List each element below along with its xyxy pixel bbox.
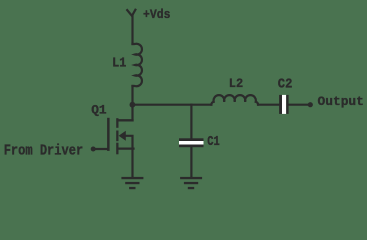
transistor Q1 body lead and source vertical [125, 136, 133, 177]
svg-text:Q1: Q1 [91, 102, 107, 117]
wire L2 to C2 [258, 104, 279, 106]
wire C1 branch upper [190, 105, 192, 139]
capacitor C2 right plate [286, 95, 288, 114]
svg-text:Output: Output [318, 94, 364, 109]
inductor L1 [133, 44, 142, 86]
capacitor C2 left plate [279, 95, 282, 114]
svg-text:C2: C2 [278, 78, 293, 93]
svg-text:+Vds: +Vds [143, 7, 171, 22]
capacitor C1 bottom plate [179, 145, 204, 148]
transistor Q1 channel dash bottom [116, 143, 118, 155]
gate terminal dot [91, 147, 96, 152]
junction node dot [130, 102, 136, 108]
wire drain vertical [119, 86, 133, 120]
wire C2 to output [289, 104, 310, 106]
svg-text:L2: L2 [229, 76, 244, 91]
capacitor C1 top plate [179, 138, 204, 141]
svg-text:L1: L1 [112, 56, 126, 71]
ground under Q1 source [121, 177, 143, 189]
capacitor C2 white gap [282, 95, 286, 114]
wire main net horizontal [133, 104, 212, 106]
transistor Q1 drain lead [119, 119, 133, 121]
transistor Q1 source lead [119, 148, 134, 150]
output terminal dot [308, 102, 313, 107]
svg-text:From Driver: From Driver [4, 144, 84, 160]
transistor Q1 gate bar [107, 118, 110, 151]
ground under C1 [180, 177, 202, 189]
supply +Vds antenna symbol [127, 10, 135, 44]
transistor Q1 body arrow [119, 131, 126, 141]
svg-text:C1: C1 [207, 135, 220, 150]
wire C1 branch lower [190, 147, 192, 177]
capacitor C1 white gap [179, 141, 204, 145]
transistor Q1 channel dash top [116, 118, 118, 128]
inductor L2 [211, 95, 258, 105]
transistor Q1 channel dash middle [116, 131, 118, 142]
transistor Q1 gate lead [93, 148, 107, 150]
